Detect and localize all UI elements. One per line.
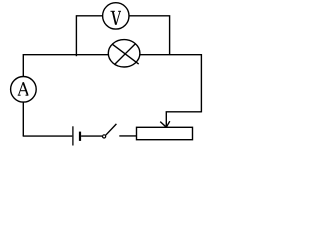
wire right vertical (lamp row down to wiper feed) [200,54,202,112]
rheostat R1 body [137,127,193,139]
wire bottom row to battery [23,135,73,137]
wire left branch vertical (parallel connection left) [75,15,77,56]
rheostat wiper arrow [160,121,170,127]
wire top right (voltmeter to right branch corner then down) [129,16,170,55]
ammeter A1 [11,77,37,103]
battery B1 [73,126,80,145]
wire wiper up and right to right vertical [166,112,201,127]
wire left vertical down to ammeter [22,54,24,77]
voltmeter V1 [103,3,129,29]
switch S1 [103,124,117,138]
wire lamp row left (from top-left corner to lamp) [23,54,108,56]
wire lamp row right (lamp to right side corner) [140,54,202,56]
wire switch to rheostat [119,135,136,137]
wire top left (voltmeter to left branch corner) [76,15,102,17]
lamp L1 [108,40,140,67]
wire ammeter down to bottom row [22,102,24,136]
wire battery to switch [81,135,102,137]
